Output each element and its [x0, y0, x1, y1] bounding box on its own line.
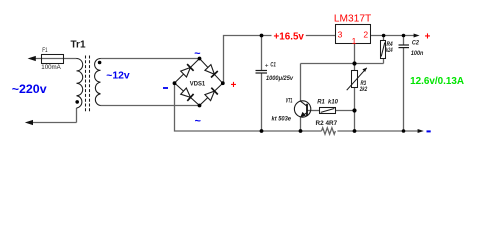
- svg-text:R1 k10: R1 k10: [317, 99, 338, 106]
- svg-text:F1: F1: [42, 47, 48, 54]
- svg-text:C2: C2: [412, 39, 419, 46]
- svg-text:12.6v/0.13A: 12.6v/0.13A: [410, 76, 465, 87]
- svg-text:kt 503e: kt 503e: [272, 115, 292, 122]
- svg-text:+: +: [231, 80, 237, 91]
- svg-text:1000μ/25v: 1000μ/25v: [266, 75, 293, 82]
- svg-text:VT1: VT1: [286, 98, 293, 104]
- svg-text:100n: 100n: [411, 50, 423, 57]
- svg-text:+: +: [425, 32, 431, 43]
- svg-text:+16.5v: +16.5v: [274, 32, 305, 43]
- svg-text:VDS1: VDS1: [190, 81, 206, 88]
- svg-text:k24: k24: [386, 47, 393, 54]
- svg-text:R2 4R7: R2 4R7: [316, 120, 338, 127]
- svg-text:+: +: [265, 63, 269, 70]
- svg-text:2k2: 2k2: [359, 86, 368, 93]
- svg-text:C1: C1: [270, 62, 276, 69]
- svg-text:~220v: ~220v: [12, 82, 47, 96]
- svg-text:3: 3: [338, 29, 343, 39]
- svg-text:1: 1: [352, 36, 357, 46]
- svg-text:2: 2: [363, 29, 368, 39]
- svg-text:100mA: 100mA: [41, 64, 61, 71]
- svg-text:~: ~: [195, 116, 201, 128]
- svg-text:~: ~: [194, 48, 200, 60]
- svg-text:~12v: ~12v: [106, 71, 130, 82]
- svg-text:Tr1: Tr1: [71, 40, 86, 51]
- svg-text:LM317T: LM317T: [334, 14, 371, 25]
